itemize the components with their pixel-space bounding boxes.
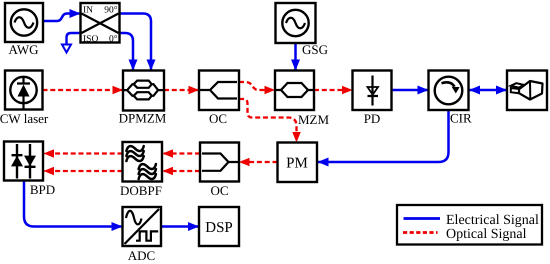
svg-text:ISO: ISO [83, 35, 98, 45]
phase modulator PM [278, 143, 318, 183]
svg-text:IN: IN [83, 6, 93, 16]
legend optical sample [403, 231, 438, 234]
processor DSP [199, 207, 239, 246]
svg-text:OC: OC [209, 111, 227, 126]
wire CIR to PM [318, 110, 449, 162]
svg-text:OC: OC [210, 183, 228, 198]
wire CIR to antenna [470, 89, 507, 92]
svg-text:PD: PD [364, 111, 381, 126]
wire BPD to ADC [24, 181, 122, 227]
fiber OC to MZM [239, 82, 275, 90]
svg-text:DPMZM: DPMZM [119, 111, 167, 126]
svg-text:Optical Signal: Optical Signal [446, 227, 527, 242]
optical coupler OC top [199, 71, 239, 111]
svg-text:AWG: AWG [8, 42, 38, 57]
filter DOBPF [123, 142, 163, 183]
svg-text:CIR: CIR [450, 111, 472, 126]
optical coupler OC bottom [200, 143, 239, 182]
svg-text:MZM: MZM [298, 112, 330, 127]
svg-text:DSP: DSP [205, 220, 233, 236]
fiber PM to OC2 [240, 161, 278, 163]
legend electrical sample [404, 217, 441, 220]
modulator DPMZM [123, 71, 164, 111]
CW laser [5, 71, 43, 110]
svg-text:90°: 90° [104, 6, 118, 16]
fiber CW laser to DPMZM [43, 89, 123, 91]
wire hybrid ISO to termination [67, 33, 81, 44]
svg-text:0°: 0° [109, 35, 118, 45]
wire hybrid 90 to DPMZM [120, 14, 152, 71]
fiber DOBPF to BPD lower [44, 170, 123, 172]
circulator CIR [429, 71, 469, 111]
fiber OC2 to DOBPF lower [163, 170, 200, 172]
wire PD to CIR [392, 89, 429, 92]
wire ADC to DSP [161, 225, 199, 228]
fiber MZM to PD [314, 89, 352, 91]
fiber OC to PM [239, 99, 297, 142]
horn antenna [507, 71, 547, 111]
hybrid coupler [81, 3, 120, 45]
wire hybrid 0 to DPMZM [120, 33, 134, 70]
AWG source [5, 3, 43, 42]
svg-text:GSG: GSG [302, 42, 328, 57]
svg-text:DOBPF: DOBPF [120, 183, 162, 198]
svg-text:CW laser: CW laser [0, 111, 49, 126]
balanced photodiode BPD [4, 142, 43, 181]
converter ADC [123, 207, 162, 246]
wire AWG to hybrid IN [43, 14, 80, 22]
svg-text:BPD: BPD [30, 182, 55, 197]
termination [62, 45, 71, 53]
wire GSG to MZM [294, 43, 297, 70]
modulator MZM [275, 71, 314, 111]
svg-text:ADC: ADC [128, 248, 155, 263]
fiber OC2 to DOBPF upper [163, 152, 200, 154]
svg-text:Electrical Signal: Electrical Signal [446, 213, 539, 228]
svg-text:PM: PM [286, 156, 308, 172]
fiber DPMZM to OC [164, 89, 199, 91]
legend box [397, 205, 542, 245]
fiber DOBPF to BPD upper [44, 152, 123, 154]
GSG source [276, 3, 316, 43]
photodiode PD [353, 71, 392, 111]
